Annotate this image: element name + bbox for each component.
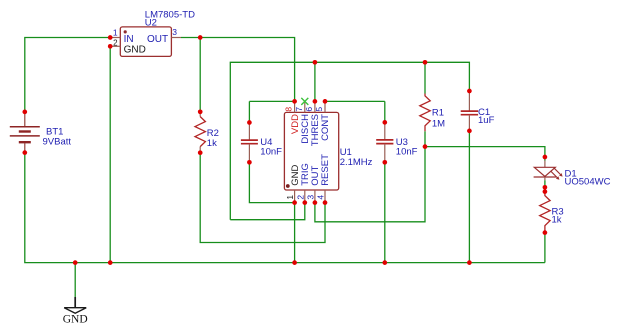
node bus U2 gnd [108, 260, 113, 265]
svg-text:IN: IN [124, 34, 134, 45]
node U1 pin8 [292, 99, 297, 104]
wire C1 bottom vertical [468, 131, 470, 263]
wire ground stub [74, 263, 76, 297]
node R3 top [543, 189, 548, 194]
node U2 pin1 [108, 35, 113, 40]
node battery plus [22, 110, 27, 115]
node U2 pin2 [108, 44, 113, 49]
wire U4 top vertical [248, 101, 250, 122]
svg-text:3: 3 [172, 27, 177, 37]
wire pin2 TRIG to left vertical [230, 203, 304, 220]
svg-text:5: 5 [314, 107, 324, 112]
node R1 top junction [423, 60, 428, 65]
svg-text:1k: 1k [207, 138, 217, 149]
svg-text:UO504WC: UO504WC [565, 177, 611, 188]
node THRES junction [313, 60, 318, 65]
node battery minus [22, 150, 27, 155]
node U4 top [247, 120, 252, 125]
svg-text:3: 3 [306, 195, 316, 200]
wire top bus y101 [249, 100, 294, 102]
wire U3 top vertical [384, 101, 386, 122]
svg-text:10nF: 10nF [396, 147, 418, 158]
wire U3 bottom to bus [384, 162, 386, 262]
wire R3 bottom to bus [544, 233, 546, 263]
svg-text:8: 8 [284, 107, 294, 112]
battery BT1 [10, 112, 72, 153]
svg-text:1: 1 [113, 28, 118, 38]
wire U2 OUT to pin8 vertical [181, 38, 295, 102]
capacitor C1 [461, 91, 495, 131]
node R1 bottom junction [423, 144, 428, 149]
resistor R1 [420, 94, 445, 132]
node D1 bottom [543, 185, 548, 190]
svg-text:GND: GND [63, 313, 88, 325]
resistor R3 [540, 192, 564, 233]
node R2 top terminal [198, 109, 203, 114]
node R3 bottom [543, 230, 548, 235]
wire pin6 vertical [314, 62, 316, 101]
node U1 pin2 [302, 200, 307, 205]
wire battery top to U2 IN [25, 38, 110, 113]
node bus U1 pin1 [292, 260, 297, 265]
svg-text:1k: 1k [552, 214, 562, 225]
svg-text:4: 4 [316, 195, 326, 200]
node C1 top [467, 89, 472, 94]
node U1 pin1 [292, 200, 297, 205]
node bus C1 [467, 260, 472, 265]
LED D1 [534, 157, 611, 188]
svg-text:2: 2 [113, 38, 118, 47]
svg-text:GND: GND [124, 45, 146, 56]
svg-text:R1: R1 [432, 108, 444, 119]
wire U4 bottom to pin1 GND [249, 162, 294, 202]
resistor R2 [195, 112, 219, 153]
svg-text:1: 1 [285, 195, 295, 200]
wire battery bottom to ground bus [25, 153, 545, 263]
wire R1 bottom vertical to OUT line [315, 131, 425, 222]
svg-text:9VBatt: 9VBatt [43, 136, 72, 147]
svg-text:OUT: OUT [147, 34, 168, 45]
svg-text:1uF: 1uF [478, 115, 495, 126]
node U1 pin6 [313, 99, 318, 104]
svg-text:2.1MHz: 2.1MHz [340, 157, 373, 168]
node D1 top [543, 155, 548, 160]
svg-text:2: 2 [295, 195, 305, 200]
node U1 pin5 [323, 99, 328, 104]
wire THRES line y62 [230, 62, 469, 219]
wire U2 GND pin2 down to bus [109, 46, 111, 262]
wire R1 bottom to D1 [425, 147, 545, 157]
wire R2 bottom to pin4 RESET [200, 153, 325, 243]
node U4 bottom [247, 160, 252, 165]
wire R1 top vertical [424, 62, 426, 93]
svg-text:6: 6 [304, 107, 314, 112]
timer U1 [284, 101, 373, 202]
node U3 top [382, 120, 387, 125]
svg-text:CONT: CONT [320, 114, 331, 141]
svg-text:10nF: 10nF [260, 147, 282, 158]
capacitor U3 [376, 122, 417, 162]
node U1 pin4 [323, 200, 328, 205]
node U1 pin3 [313, 200, 318, 205]
node bus U3 [382, 260, 387, 265]
node R2 bottom terminal [198, 150, 203, 155]
regulator U2 LM7805-TD [110, 10, 195, 57]
node bus GND stub [73, 260, 78, 265]
svg-text:7: 7 [294, 107, 304, 112]
no-connect X pin7 [301, 98, 308, 105]
wire pin5 to U3 top [325, 100, 385, 102]
ground [63, 297, 88, 325]
svg-text:U2: U2 [145, 17, 157, 28]
node U3 bottom [382, 160, 387, 165]
node R2 junction top [198, 35, 203, 40]
capacitor U4 [241, 123, 282, 163]
svg-text:1M: 1M [432, 118, 445, 129]
svg-text:RESET: RESET [320, 154, 331, 186]
wire D1 to R3 [544, 187, 546, 191]
node C1 bottom [467, 129, 472, 134]
wire pin1 down to bus [294, 203, 296, 263]
wire R2 top vertical [199, 38, 201, 112]
